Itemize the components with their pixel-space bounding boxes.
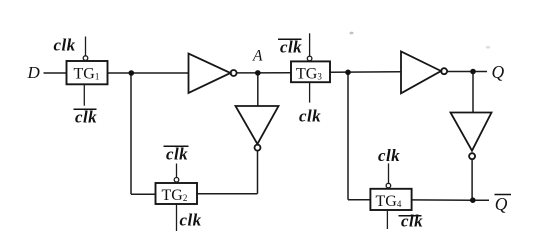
svg-text:A: A (252, 48, 263, 65)
svg-text:TG3: TG3 (296, 65, 322, 82)
svg-text:D: D (27, 63, 41, 82)
svg-text:clk: clk (54, 35, 76, 54)
svg-text:clk: clk (401, 212, 423, 231)
svg-text:clk: clk (75, 108, 97, 127)
svg-text:clk: clk (280, 37, 302, 56)
svg-text:Q: Q (492, 62, 505, 82)
svg-text:TG4: TG4 (376, 193, 402, 210)
svg-text:TG1: TG1 (74, 65, 100, 82)
svg-text:clk: clk (299, 106, 321, 125)
svg-text:clk: clk (166, 144, 188, 163)
svg-text:TG2: TG2 (162, 187, 188, 204)
svg-text:clk: clk (180, 211, 202, 230)
svg-text:clk: clk (378, 146, 400, 165)
svg-text:Q: Q (495, 194, 508, 214)
